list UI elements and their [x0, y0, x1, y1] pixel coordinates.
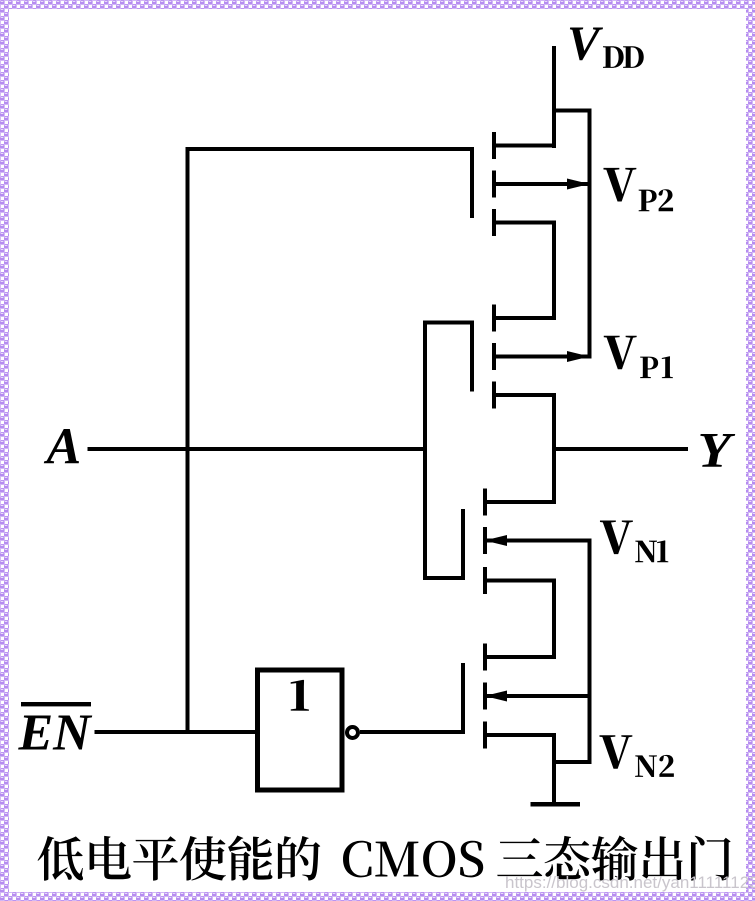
wire VP1 drain stub — [492, 393, 556, 397]
caption char 出 — [642, 836, 683, 880]
transistor VN2 channel seg1 — [483, 644, 487, 671]
label EN overline — [21, 702, 91, 706]
transistor VN1 channel seg2 — [483, 527, 487, 554]
label VN2 sub N — [635, 755, 657, 777]
svg-text:A: A — [44, 419, 82, 476]
transistor VN2 channel seg2 — [483, 683, 487, 710]
wire VN2 source stub — [483, 733, 556, 737]
transistor VP1 gate bar — [470, 321, 474, 392]
wire A rail vertical — [423, 321, 427, 581]
caption char 态 — [545, 836, 590, 879]
wire VN2 bulk stub — [483, 694, 592, 698]
caption char 输 — [591, 836, 637, 881]
label VN2 sub 2 — [659, 755, 674, 777]
transistor VN2 channel seg3 — [483, 722, 487, 749]
caption char 三 — [497, 838, 542, 876]
wire VP1-Y connector — [552, 393, 556, 451]
caption char 使 — [180, 836, 226, 881]
wire EN rail vertical — [186, 147, 190, 734]
label VDD sub D2 — [623, 46, 644, 68]
wire VP2 source stub — [492, 144, 556, 148]
wire VN2 drain stub — [483, 655, 556, 659]
transistor VP1 channel seg3 — [492, 382, 496, 409]
arrow VN2 bulk — [485, 691, 508, 702]
svg-text:https://blog.csdn.net/yan11111: https://blog.csdn.net/yan11111123 — [505, 873, 755, 892]
wire ground connector — [552, 760, 592, 764]
arrow VP1 bulk — [567, 351, 590, 362]
arrow VP2 bulk — [567, 179, 590, 190]
transistor VN1 channel seg1 — [483, 489, 487, 516]
label VP1 sub 1 — [662, 356, 673, 378]
caption char 的 — [278, 836, 320, 880]
transistor VP2 channel seg1 — [492, 132, 496, 159]
wire VN1 source stub — [483, 579, 556, 583]
wire N bulk rail — [588, 539, 592, 765]
wire VN1 drain stub — [483, 500, 556, 504]
wire VP1 bulk stub — [492, 355, 592, 359]
wire input A — [88, 447, 428, 451]
wire N1 gate horizontal — [423, 576, 465, 580]
transistor VP1 channel seg1 — [492, 305, 496, 332]
caption char 能 — [228, 836, 272, 881]
label VN1 sub N — [635, 541, 657, 563]
wire VP2 drain stub — [492, 221, 556, 225]
transistor VP2 channel seg2 — [492, 171, 496, 198]
label VDD sub D1 — [603, 46, 624, 68]
wire VDD bulk branch — [552, 109, 592, 113]
caption char 电 — [90, 836, 131, 879]
caption char M — [375, 842, 418, 877]
transistor VN1 gate bar — [461, 509, 465, 580]
label VN2 V — [599, 735, 632, 769]
label VN1 sub 1 — [657, 540, 668, 562]
inverter U1 bubble — [347, 727, 358, 738]
caption char S — [460, 841, 483, 878]
wire VP1 gate horizontal — [423, 321, 474, 325]
wire VP2-VP1 connector — [552, 221, 556, 321]
wire VN1-VN2 connector — [552, 579, 556, 660]
label VP2 sub P — [639, 190, 657, 212]
wire VN1 bulk stub — [483, 539, 592, 543]
wire VP2 bulk stub — [492, 182, 592, 186]
wire output Y — [552, 447, 688, 451]
wire inverter output — [360, 730, 463, 734]
ground — [531, 802, 581, 807]
caption char O — [423, 841, 455, 878]
label VP1 sub P — [640, 357, 658, 379]
label VN1 V — [600, 521, 633, 555]
transistor VP2 gate bar — [470, 147, 474, 218]
label VP2 V — [603, 168, 636, 202]
wire VDD vertical — [552, 46, 556, 148]
wire P2 gate horizontal — [186, 147, 475, 151]
wire VN1-Y connector — [552, 449, 556, 504]
wire VN2-ground vertical — [552, 733, 556, 802]
label VP1 V — [604, 336, 637, 370]
caption char 门 — [691, 836, 731, 881]
transistor VP1 channel seg2 — [492, 343, 496, 370]
transistor VP2 channel seg3 — [492, 209, 496, 236]
transistor VN2 gate bar — [461, 663, 465, 734]
transistor VN1 channel seg3 — [483, 567, 487, 594]
arrow VN1 bulk — [485, 535, 508, 546]
label VP2 sub 2 — [659, 189, 674, 211]
svg-text:V: V — [567, 16, 604, 71]
inverter U1 label 1 — [291, 680, 309, 711]
svg-text:Y: Y — [698, 422, 736, 478]
caption char 平 — [133, 836, 178, 880]
caption char C — [343, 841, 371, 878]
wire P bulk rail — [588, 109, 592, 359]
wire EN input — [95, 730, 256, 734]
inverter U1 box — [258, 670, 343, 790]
svg-text:EN: EN — [18, 704, 94, 761]
wire VP1 source stub — [492, 316, 556, 320]
caption char 低 — [38, 836, 84, 881]
